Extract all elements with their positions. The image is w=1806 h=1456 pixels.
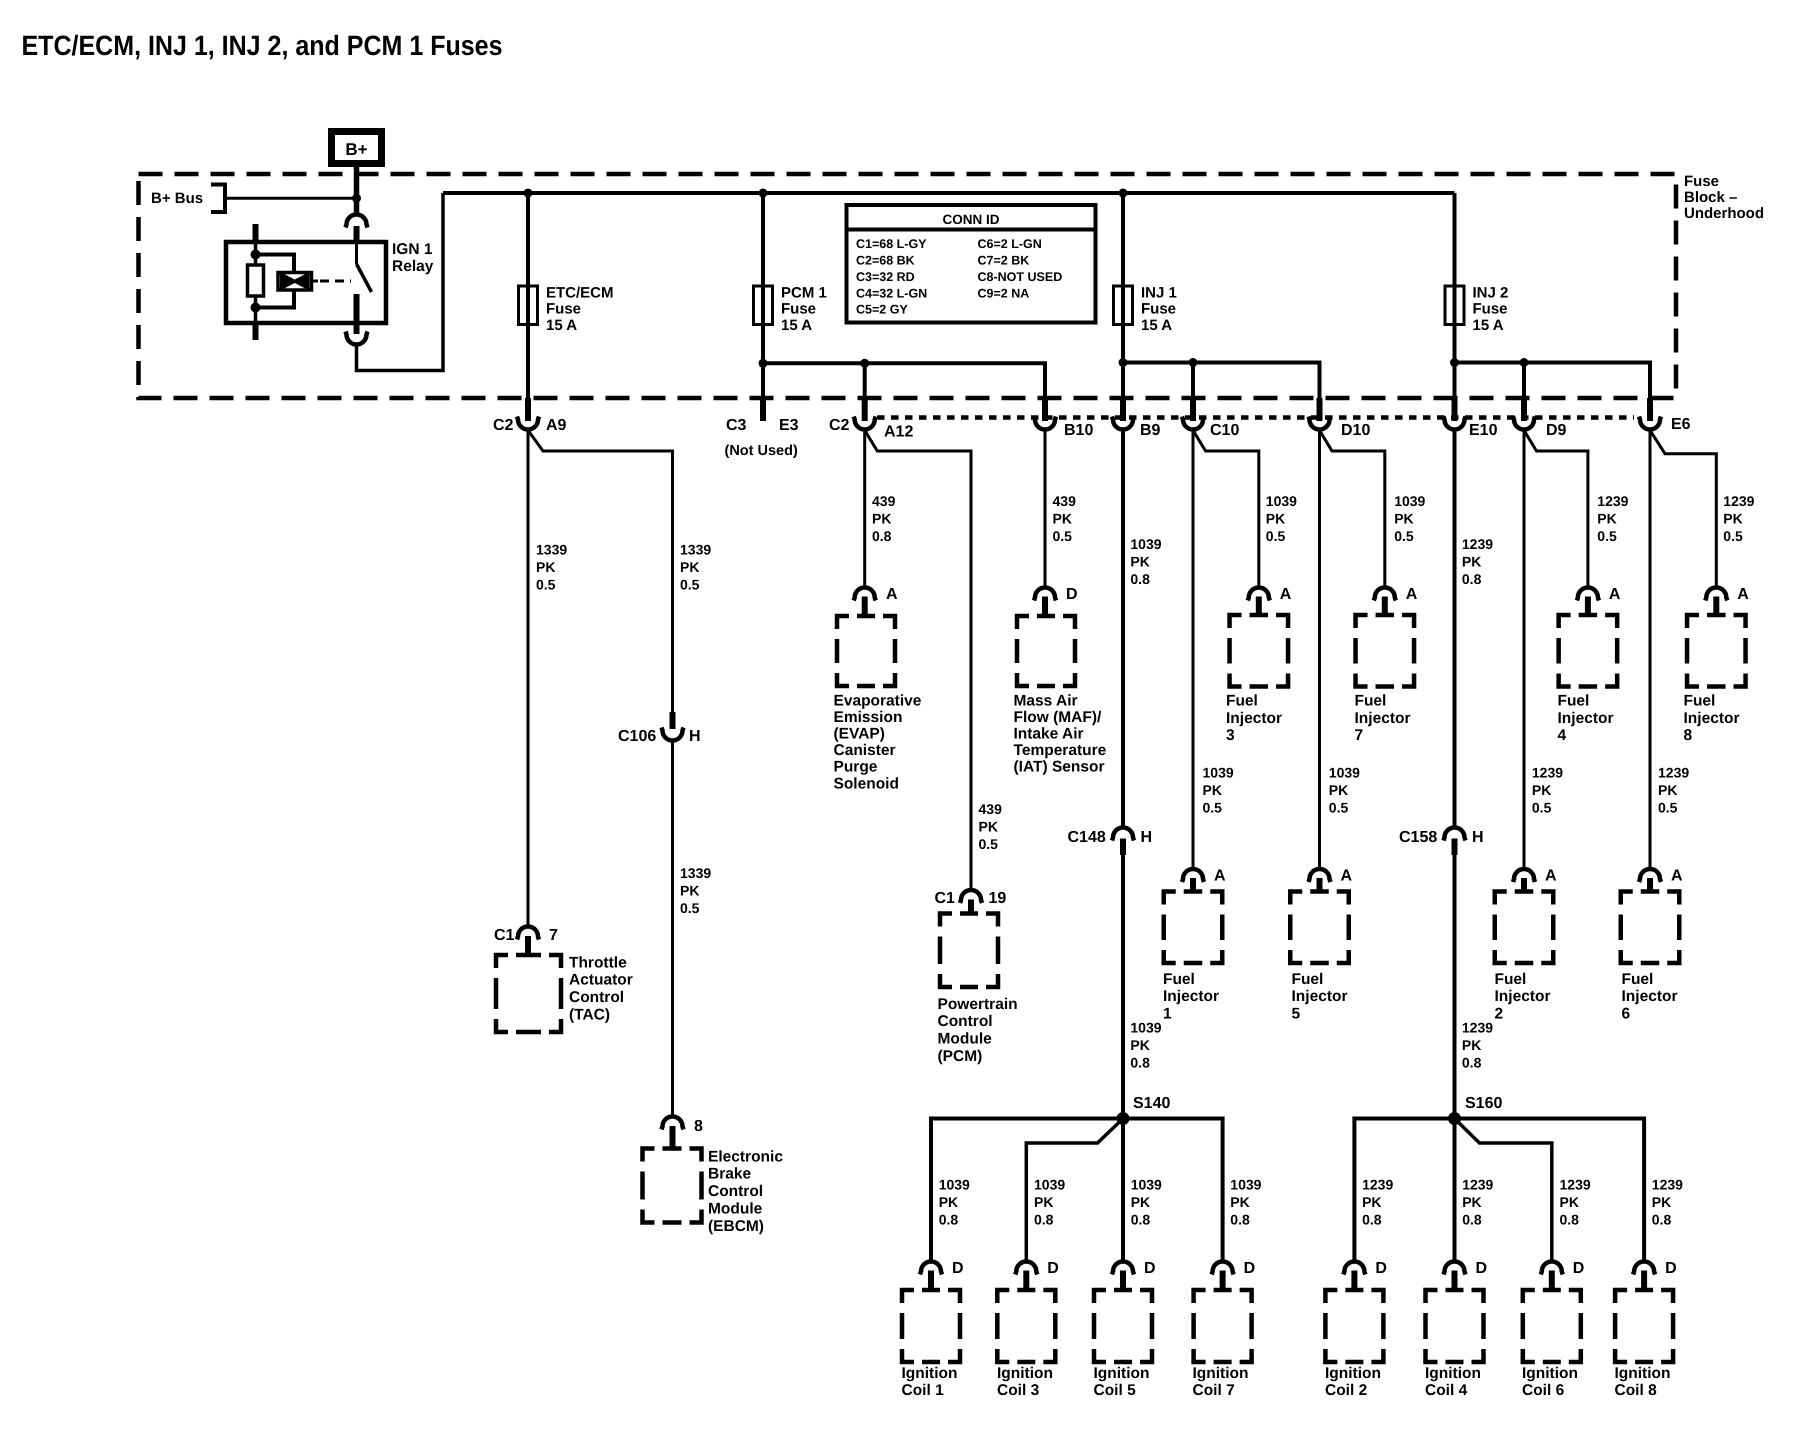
connector C10 bbox=[1190, 398, 1196, 421]
svg-text:C1: C1 bbox=[935, 890, 956, 907]
Fuel Injector 8 box bbox=[1687, 615, 1746, 687]
svg-text:PK: PK bbox=[1131, 1194, 1150, 1210]
svg-text:Coil 6: Coil 6 bbox=[1522, 1382, 1565, 1399]
terminal 8 at EBCM bbox=[662, 1117, 684, 1130]
node relay coil top junction bbox=[251, 250, 261, 260]
svg-text:1239: 1239 bbox=[1658, 765, 1689, 781]
svg-text:(TAC): (TAC) bbox=[569, 1007, 610, 1024]
svg-text:E6: E6 bbox=[1671, 416, 1691, 433]
svg-text:PK: PK bbox=[1597, 511, 1616, 527]
svg-text:PK: PK bbox=[536, 559, 555, 575]
svg-text:C6=2 L-GN: C6=2 L-GN bbox=[978, 237, 1042, 251]
fuse block dashed border bbox=[139, 174, 1677, 398]
svg-text:(EVAP): (EVAP) bbox=[834, 726, 885, 743]
svg-text:A: A bbox=[1671, 868, 1683, 885]
svg-text:Fuel: Fuel bbox=[1622, 971, 1654, 988]
wire B+ bus bbox=[227, 197, 355, 200]
wire B+ drop bbox=[354, 166, 360, 214]
svg-text:Module: Module bbox=[708, 1201, 763, 1218]
svg-text:1039: 1039 bbox=[1203, 765, 1234, 781]
harness connector dotted line bbox=[877, 415, 1634, 420]
svg-text:Control: Control bbox=[938, 1013, 993, 1030]
svg-text:Flow (MAF)/: Flow (MAF)/ bbox=[1014, 709, 1103, 726]
svg-text:0.8: 0.8 bbox=[1362, 1212, 1382, 1228]
svg-text:C2=68 BK: C2=68 BK bbox=[856, 254, 915, 268]
svg-text:3: 3 bbox=[1226, 727, 1235, 744]
svg-text:0.8: 0.8 bbox=[1560, 1212, 1580, 1228]
svg-text:A: A bbox=[1545, 868, 1557, 885]
svg-text:CONN ID: CONN ID bbox=[943, 212, 1000, 227]
svg-text:Brake: Brake bbox=[708, 1166, 751, 1183]
wire C3 drop (not used) bbox=[761, 363, 765, 398]
svg-text:1339: 1339 bbox=[680, 542, 711, 558]
svg-text:Injector: Injector bbox=[1163, 988, 1219, 1005]
splice S140 bbox=[1117, 1112, 1130, 1125]
Ignition Coil 3 box bbox=[997, 1290, 1055, 1362]
fuse ETC/ECM 15 A bbox=[519, 286, 538, 325]
wire 1339 PK C106 to EBCM bbox=[671, 741, 674, 1117]
wire S160 to coil 4 bbox=[1453, 1119, 1457, 1262]
wire switched feed bus bbox=[443, 191, 1455, 195]
svg-text:Injector: Injector bbox=[1558, 710, 1614, 727]
svg-text:1039: 1039 bbox=[1034, 1177, 1065, 1193]
svg-text:E10: E10 bbox=[1469, 422, 1498, 439]
Electronic Brake Control Module (EBCM) box bbox=[643, 1149, 702, 1223]
node PCM1 distribution junction bbox=[759, 359, 768, 368]
wire 439 PK to PCM bbox=[865, 430, 971, 890]
svg-text:C106: C106 bbox=[618, 728, 656, 745]
svg-text:PK: PK bbox=[939, 1194, 958, 1210]
svg-text:(EBCM): (EBCM) bbox=[708, 1218, 764, 1235]
svg-text:1239: 1239 bbox=[1597, 493, 1628, 509]
terminal A at EVAP solenoid bbox=[854, 588, 876, 601]
relay coil resistor bbox=[248, 265, 264, 296]
svg-text:PK: PK bbox=[1266, 511, 1285, 527]
svg-text:Coil 8: Coil 8 bbox=[1615, 1382, 1658, 1399]
svg-text:Injector: Injector bbox=[1622, 988, 1678, 1005]
connector C2 pin A9 bbox=[525, 398, 531, 421]
wire PCM1 distribution bus bbox=[763, 363, 1045, 398]
svg-text:7: 7 bbox=[549, 927, 558, 944]
svg-text:PK: PK bbox=[1658, 782, 1677, 798]
wire ETC fuse to border bbox=[526, 325, 530, 399]
wire relay actuator dashed link bbox=[312, 280, 319, 283]
svg-text:D: D bbox=[952, 1260, 964, 1277]
CONN ID table bbox=[847, 205, 1096, 323]
svg-text:Fuel: Fuel bbox=[1226, 693, 1258, 710]
relay terminal top bbox=[346, 215, 368, 228]
svg-text:Mass Air: Mass Air bbox=[1014, 692, 1078, 709]
svg-text:Intake Air: Intake Air bbox=[1014, 726, 1084, 743]
svg-text:PK: PK bbox=[1203, 782, 1222, 798]
svg-text:D: D bbox=[1665, 1260, 1677, 1277]
svg-text:8: 8 bbox=[694, 1118, 703, 1135]
svg-text:5: 5 bbox=[1292, 1005, 1301, 1022]
svg-text:Ignition: Ignition bbox=[1522, 1365, 1578, 1382]
svg-text:1039: 1039 bbox=[1130, 1020, 1161, 1036]
terminal A at fuel injector 6 bbox=[1639, 869, 1661, 882]
node feed PCM1 junction bbox=[759, 189, 768, 198]
inline connector C148 pin H bbox=[1112, 828, 1134, 841]
svg-text:D: D bbox=[1573, 1260, 1585, 1277]
svg-text:Purge: Purge bbox=[834, 759, 878, 776]
wire ETC/ECM fuse feed bbox=[526, 193, 530, 286]
connector B9 bbox=[1120, 398, 1126, 421]
svg-text:ETC/ECM: ETC/ECM bbox=[546, 284, 614, 301]
svg-text:0.8: 0.8 bbox=[1462, 571, 1482, 587]
wire 1239 PK main INJ2 feed upper bbox=[1453, 430, 1457, 827]
Ignition Coil 7 box bbox=[1194, 1290, 1252, 1362]
svg-text:A: A bbox=[886, 586, 898, 603]
terminal D at ignition coil 1 bbox=[920, 1262, 942, 1275]
svg-text:H: H bbox=[1472, 829, 1484, 846]
svg-text:PK: PK bbox=[1532, 782, 1551, 798]
svg-text:PK: PK bbox=[1130, 554, 1149, 570]
node D9 tap junction bbox=[1520, 358, 1529, 367]
wire INJ1 distribution bus bbox=[1123, 363, 1320, 399]
svg-text:Injector: Injector bbox=[1226, 710, 1282, 727]
svg-text:PK: PK bbox=[680, 883, 699, 899]
svg-text:Fuel: Fuel bbox=[1355, 693, 1387, 710]
svg-text:4: 4 bbox=[1558, 727, 1567, 744]
connector C2 pin A12 bbox=[862, 398, 868, 421]
svg-text:Injector: Injector bbox=[1684, 710, 1740, 727]
svg-text:Fuel: Fuel bbox=[1292, 971, 1324, 988]
Ignition Coil 8 box bbox=[1615, 1290, 1673, 1362]
svg-text:Temperature: Temperature bbox=[1014, 742, 1107, 759]
svg-text:Powertrain: Powertrain bbox=[938, 996, 1018, 1013]
svg-text:A: A bbox=[1609, 586, 1621, 603]
svg-text:1039: 1039 bbox=[1230, 1177, 1261, 1193]
svg-text:Fuel: Fuel bbox=[1684, 693, 1716, 710]
svg-text:Ignition: Ignition bbox=[1193, 1365, 1249, 1382]
svg-text:(Not Used): (Not Used) bbox=[725, 443, 798, 459]
svg-text:(IAT) Sensor: (IAT) Sensor bbox=[1014, 759, 1105, 776]
svg-text:Injector: Injector bbox=[1495, 988, 1551, 1005]
svg-text:D9: D9 bbox=[1546, 422, 1567, 439]
svg-text:1239: 1239 bbox=[1362, 1177, 1393, 1193]
node INJ1 distribution junction bbox=[1119, 358, 1128, 367]
wire 1039 PK main INJ1 feed upper bbox=[1121, 430, 1125, 827]
Ignition Coil 2 box bbox=[1325, 1290, 1383, 1362]
svg-text:Ignition: Ignition bbox=[902, 1365, 958, 1382]
terminal A at fuel injector 2 bbox=[1513, 869, 1535, 882]
svg-text:Fuel: Fuel bbox=[1163, 971, 1195, 988]
Fuel Injector 4 box bbox=[1559, 615, 1618, 687]
svg-text:B10: B10 bbox=[1064, 422, 1093, 439]
svg-text:1: 1 bbox=[1163, 1005, 1172, 1022]
EVAP canister purge solenoid box bbox=[837, 616, 895, 686]
svg-text:1039: 1039 bbox=[1266, 493, 1297, 509]
svg-text:C2: C2 bbox=[829, 417, 850, 434]
svg-text:A: A bbox=[1737, 586, 1749, 603]
svg-text:PK: PK bbox=[1230, 1194, 1249, 1210]
terminal D at MAF/IAT sensor bbox=[1034, 588, 1056, 601]
node INJ2 distribution junction bbox=[1450, 358, 1459, 367]
svg-text:0.5: 0.5 bbox=[680, 900, 700, 916]
svg-text:1339: 1339 bbox=[536, 542, 567, 558]
svg-text:PK: PK bbox=[1362, 1194, 1381, 1210]
terminal A at fuel injector 7 bbox=[1374, 588, 1396, 601]
wire 1039 PK to fuel injector 5 bbox=[1318, 430, 1321, 869]
svg-text:1239: 1239 bbox=[1652, 1177, 1683, 1193]
wire 1039 PK main INJ1 feed lower bbox=[1121, 855, 1125, 1119]
wire S140 to coil 5 bbox=[1121, 1119, 1125, 1262]
wire INJ1 fuse to distribution bbox=[1121, 325, 1125, 363]
svg-text:Fuse: Fuse bbox=[1141, 301, 1176, 318]
svg-text:Emission: Emission bbox=[834, 709, 903, 726]
svg-text:Fuel: Fuel bbox=[1558, 693, 1590, 710]
connector C3 pin E3 stub (not used) bbox=[760, 398, 766, 421]
terminal A at fuel injector 4 bbox=[1577, 588, 1599, 601]
wire relay coil parallel branch bbox=[256, 255, 295, 273]
Powertrain Control Module (PCM) box bbox=[940, 914, 998, 988]
svg-text:PK: PK bbox=[1462, 1194, 1481, 1210]
relay switch fixed contact bottom bbox=[354, 294, 360, 323]
fuse PCM 1 15 A bbox=[754, 286, 773, 325]
node B+ bus junction bbox=[352, 194, 361, 203]
Ignition Coil 6 box bbox=[1523, 1290, 1581, 1362]
terminal D at ignition coil 3 bbox=[1015, 1261, 1037, 1274]
svg-text:0.8: 0.8 bbox=[1462, 1055, 1482, 1071]
svg-text:Underhood: Underhood bbox=[1684, 205, 1764, 222]
svg-text:S160: S160 bbox=[1465, 1095, 1502, 1112]
svg-text:D: D bbox=[1144, 1260, 1156, 1277]
svg-text:B+ Bus: B+ Bus bbox=[151, 190, 203, 207]
svg-text:C2: C2 bbox=[493, 417, 514, 434]
svg-text:IGN 1: IGN 1 bbox=[392, 241, 433, 258]
node feed ETC junction bbox=[524, 189, 533, 198]
svg-text:0.5: 0.5 bbox=[979, 836, 999, 852]
wire 1339 PK to TAC bbox=[527, 430, 530, 926]
svg-text:0.8: 0.8 bbox=[872, 528, 892, 544]
svg-text:D10: D10 bbox=[1341, 422, 1370, 439]
svg-text:2: 2 bbox=[1495, 1005, 1504, 1022]
Fuel Injector 1 box bbox=[1164, 892, 1223, 964]
svg-text:C8-NOT USED: C8-NOT USED bbox=[978, 270, 1063, 284]
terminal D at ignition coil 5 bbox=[1112, 1262, 1134, 1275]
svg-text:Ignition: Ignition bbox=[1615, 1365, 1671, 1382]
wire D9 drop bbox=[1522, 363, 1526, 399]
svg-text:D: D bbox=[1476, 1260, 1488, 1277]
svg-text:A: A bbox=[1280, 586, 1292, 603]
svg-text:D: D bbox=[1066, 586, 1078, 603]
svg-text:PK: PK bbox=[1053, 511, 1072, 527]
Fuel Injector 7 box bbox=[1356, 615, 1415, 687]
svg-text:S140: S140 bbox=[1133, 1095, 1170, 1112]
svg-text:PK: PK bbox=[1034, 1194, 1053, 1210]
inline connector C158 pin H bbox=[1444, 828, 1466, 841]
wire 439 PK to EVAP bbox=[863, 430, 866, 587]
svg-text:PK: PK bbox=[1462, 1037, 1481, 1053]
wire S160 coil bus bbox=[1354, 1119, 1644, 1262]
connector E10 bbox=[1452, 398, 1458, 421]
svg-text:0.8: 0.8 bbox=[939, 1212, 959, 1228]
svg-text:Throttle: Throttle bbox=[569, 954, 627, 971]
svg-text:PK: PK bbox=[979, 819, 998, 835]
svg-text:Coil 3: Coil 3 bbox=[997, 1382, 1040, 1399]
svg-text:Fuse: Fuse bbox=[1473, 301, 1508, 318]
svg-text:1239: 1239 bbox=[1462, 1020, 1493, 1036]
svg-text:6: 6 bbox=[1622, 1005, 1631, 1022]
fuse INJ 2 15 A bbox=[1445, 286, 1464, 325]
connector C1 pin 7 at TAC bbox=[517, 927, 539, 940]
svg-text:15 A: 15 A bbox=[781, 317, 812, 334]
svg-text:PK: PK bbox=[1462, 554, 1481, 570]
svg-text:0.8: 0.8 bbox=[1130, 571, 1150, 587]
svg-text:1239: 1239 bbox=[1560, 1177, 1591, 1193]
wire PCM 1 fuse feed bbox=[761, 193, 765, 286]
Throttle Actuator Control (TAC) box bbox=[496, 955, 561, 1032]
svg-text:A: A bbox=[1341, 868, 1353, 885]
svg-text:Coil 5: Coil 5 bbox=[1094, 1382, 1137, 1399]
svg-text:INJ 1: INJ 1 bbox=[1141, 284, 1177, 301]
svg-text:Coil 7: Coil 7 bbox=[1193, 1382, 1235, 1399]
relay coil pin stub bottom bbox=[253, 323, 259, 340]
wire INJ 1 fuse feed bbox=[1121, 193, 1125, 286]
svg-text:Coil 2: Coil 2 bbox=[1325, 1382, 1367, 1399]
svg-text:Ignition: Ignition bbox=[1094, 1365, 1150, 1382]
svg-text:PCM 1: PCM 1 bbox=[781, 284, 827, 301]
svg-text:Relay: Relay bbox=[392, 258, 434, 275]
svg-text:Fuse: Fuse bbox=[546, 301, 581, 318]
svg-text:PK: PK bbox=[1130, 1037, 1149, 1053]
svg-text:1039: 1039 bbox=[1130, 536, 1161, 552]
svg-text:15 A: 15 A bbox=[1141, 317, 1172, 334]
svg-text:439: 439 bbox=[872, 493, 896, 509]
svg-text:PK: PK bbox=[1723, 511, 1742, 527]
svg-text:Canister: Canister bbox=[834, 742, 896, 759]
svg-text:Fuel: Fuel bbox=[1495, 971, 1527, 988]
svg-text:Ignition: Ignition bbox=[1325, 1365, 1381, 1382]
relay switch fixed contact top bbox=[355, 242, 358, 264]
svg-text:1039: 1039 bbox=[1131, 1177, 1162, 1193]
wire PCM1 fuse to distribution bbox=[761, 325, 765, 364]
node feed INJ1 junction bbox=[1119, 189, 1128, 198]
terminal A at fuel injector 3 bbox=[1248, 588, 1270, 601]
wire S160 diagonal branch to coil 6 bbox=[1455, 1119, 1552, 1262]
svg-text:A12: A12 bbox=[884, 424, 913, 441]
wire INJ2 distribution bus bbox=[1455, 363, 1651, 399]
connector C1 pin 19 at PCM bbox=[960, 890, 982, 903]
svg-text:0.8: 0.8 bbox=[1462, 1212, 1482, 1228]
Ignition Coil 1 box bbox=[902, 1290, 960, 1362]
svg-text:Coil 1: Coil 1 bbox=[902, 1382, 945, 1399]
wire E10 drop bbox=[1453, 363, 1457, 399]
terminal D at ignition coil 2 bbox=[1343, 1262, 1365, 1275]
terminal A at fuel injector 1 bbox=[1182, 869, 1204, 882]
svg-text:C148: C148 bbox=[1068, 829, 1106, 846]
svg-text:0.5: 0.5 bbox=[1394, 528, 1414, 544]
Fuel Injector 6 box bbox=[1621, 892, 1680, 964]
svg-text:A9: A9 bbox=[546, 417, 567, 434]
svg-text:Evaporative: Evaporative bbox=[834, 692, 922, 709]
svg-text:439: 439 bbox=[979, 801, 1003, 817]
svg-text:(PCM): (PCM) bbox=[938, 1048, 983, 1065]
svg-text:1039: 1039 bbox=[1329, 765, 1360, 781]
node relay coil bottom junction bbox=[251, 303, 261, 313]
svg-text:C3: C3 bbox=[726, 417, 747, 434]
svg-text:B9: B9 bbox=[1140, 422, 1161, 439]
svg-text:1239: 1239 bbox=[1723, 493, 1754, 509]
svg-text:Fuse: Fuse bbox=[781, 301, 816, 318]
svg-text:0.5: 0.5 bbox=[1053, 528, 1073, 544]
Fuel Injector 3 box bbox=[1230, 615, 1289, 687]
svg-text:1239: 1239 bbox=[1462, 536, 1493, 552]
svg-text:Ignition: Ignition bbox=[1425, 1365, 1481, 1382]
svg-text:0.5: 0.5 bbox=[1532, 800, 1552, 816]
svg-text:Ignition: Ignition bbox=[997, 1365, 1053, 1382]
terminal D at ignition coil 8 bbox=[1633, 1262, 1655, 1275]
svg-text:Injector: Injector bbox=[1292, 988, 1348, 1005]
Ignition Coil 4 box bbox=[1426, 1290, 1484, 1362]
svg-text:C7=2 BK: C7=2 BK bbox=[978, 254, 1030, 268]
svg-text:D: D bbox=[1244, 1260, 1256, 1277]
terminal D at ignition coil 6 bbox=[1541, 1262, 1563, 1275]
wire 1239 PK to fuel injector 6 bbox=[1649, 430, 1652, 869]
svg-text:PK: PK bbox=[1329, 782, 1348, 798]
wire INJ 2 fuse feed bbox=[1453, 193, 1457, 286]
terminal A at fuel injector 5 bbox=[1309, 869, 1331, 882]
svg-text:0.8: 0.8 bbox=[1034, 1212, 1054, 1228]
svg-text:A: A bbox=[1406, 586, 1418, 603]
svg-text:0.5: 0.5 bbox=[1203, 800, 1223, 816]
connector D9 bbox=[1521, 398, 1527, 421]
splice S160 bbox=[1448, 1112, 1461, 1125]
B+ power terminal bbox=[332, 132, 382, 164]
terminal D at ignition coil 4 bbox=[1444, 1262, 1466, 1275]
svg-text:0.5: 0.5 bbox=[1658, 800, 1678, 816]
Fuel Injector 5 box bbox=[1290, 892, 1349, 964]
svg-text:Electronic: Electronic bbox=[708, 1148, 783, 1165]
svg-text:0.5: 0.5 bbox=[1597, 528, 1617, 544]
svg-text:C3=32 RD: C3=32 RD bbox=[856, 270, 915, 284]
svg-text:H: H bbox=[689, 728, 701, 745]
node A12 tap junction bbox=[860, 359, 869, 368]
svg-text:0.8: 0.8 bbox=[1230, 1212, 1250, 1228]
wire C10 drop bbox=[1191, 363, 1195, 399]
svg-text:D: D bbox=[1375, 1260, 1387, 1277]
svg-text:0.5: 0.5 bbox=[1266, 528, 1286, 544]
connector D10 bbox=[1317, 398, 1323, 421]
wire 1239 PK to fuel injector 4 bbox=[1524, 430, 1588, 587]
svg-text:439: 439 bbox=[1053, 493, 1077, 509]
B+ Bus tap bracket bbox=[211, 185, 225, 213]
svg-text:1239: 1239 bbox=[1462, 1177, 1493, 1193]
svg-text:C1=68 L-GY: C1=68 L-GY bbox=[856, 237, 927, 251]
svg-text:B+: B+ bbox=[345, 140, 367, 159]
svg-text:0.5: 0.5 bbox=[1329, 800, 1349, 816]
wire S140 coil bus bbox=[931, 1119, 1223, 1262]
inline connector C106 pin H bbox=[670, 712, 676, 729]
relay switch blade bbox=[357, 264, 372, 292]
wire 439 PK to MAF bbox=[1044, 430, 1047, 587]
svg-text:0.8: 0.8 bbox=[1131, 1212, 1151, 1228]
fuse INJ 1 15 A bbox=[1114, 286, 1133, 325]
wire 1039 PK to fuel injector 3 bbox=[1193, 430, 1259, 587]
terminal A at fuel injector 8 bbox=[1705, 588, 1727, 601]
svg-text:PK: PK bbox=[1652, 1194, 1671, 1210]
MAF/IAT sensor box bbox=[1017, 616, 1075, 686]
svg-text:ETC/ECM, INJ 1, INJ 2, and PCM: ETC/ECM, INJ 1, INJ 2, and PCM 1 Fuses bbox=[22, 30, 503, 61]
svg-text:Control: Control bbox=[708, 1183, 763, 1200]
wire 1239 PK to fuel injector 8 bbox=[1650, 430, 1716, 587]
connector E6 bbox=[1647, 398, 1653, 421]
wire 1239 PK main INJ2 feed lower bbox=[1453, 855, 1457, 1119]
svg-text:INJ 2: INJ 2 bbox=[1473, 284, 1509, 301]
svg-text:Block –: Block – bbox=[1684, 189, 1737, 206]
svg-text:15 A: 15 A bbox=[1473, 317, 1504, 334]
